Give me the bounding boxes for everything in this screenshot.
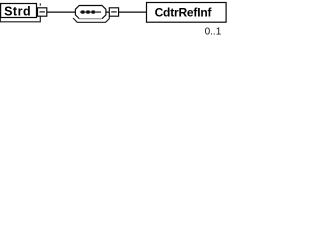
element box CdtrRefInf xyxy=(147,3,227,23)
svg-text:0..1: 0..1 xyxy=(205,27,222,38)
sequence interior line xyxy=(80,11,101,13)
expand handle box 1 (minus) xyxy=(38,8,47,16)
sequence compositor (back stacked outline) xyxy=(73,16,109,22)
sequence compositor octagon xyxy=(75,6,106,19)
wire sequence to box2 xyxy=(106,11,110,13)
expand handle box 2 (minus) xyxy=(109,8,118,16)
wire box2 to CdtrRefInf xyxy=(118,11,146,13)
background xyxy=(0,0,228,45)
svg-text:CdtrRefInf: CdtrRefInf xyxy=(155,6,213,20)
sequence octagon bottom edge (faint) xyxy=(79,18,102,20)
element box Strd xyxy=(1,4,37,18)
minus sign 1 xyxy=(39,11,45,13)
sequence dot 3 xyxy=(92,10,95,13)
minus sign 2 xyxy=(111,11,117,13)
sequence dot 2 xyxy=(86,10,89,13)
element box Strd (back stacked outline) xyxy=(0,3,40,21)
wire box1 to sequence xyxy=(47,11,76,13)
sequence dot 1 xyxy=(81,10,84,13)
svg-text:Strd: Strd xyxy=(4,5,31,19)
